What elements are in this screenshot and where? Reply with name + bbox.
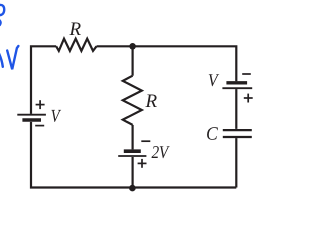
battery V1 minus sign (35, 125, 44, 127)
wire (31, 122, 236, 188)
node junction bottom (129, 185, 136, 192)
node junction top (129, 43, 136, 50)
capacitor C1 (223, 130, 252, 137)
battery V3 plus sign (138, 159, 147, 168)
resistor R2 (123, 76, 142, 125)
label V1 value V (51, 110, 61, 122)
wire (132, 125, 134, 149)
label R2 value R (145, 95, 156, 107)
label V2 value V (209, 74, 219, 86)
wire (132, 157, 134, 188)
battery V2 plus sign (244, 94, 253, 103)
battery V1 left (17, 115, 46, 120)
annotation blue handwriting partial digit (0, 5, 4, 25)
resistor R1 (56, 39, 96, 51)
annotation blue handwriting V (0, 46, 18, 69)
battery V3 minus sign (141, 140, 150, 142)
wire (31, 46, 56, 114)
label C1 value C (207, 127, 218, 140)
label V3 value 2V (152, 146, 170, 158)
battery V1 plus sign (36, 100, 45, 109)
battery V3 2V (118, 151, 146, 156)
wire (235, 138, 237, 187)
label R1 value R (69, 23, 80, 35)
wire (132, 46, 134, 75)
battery V2 right (222, 83, 252, 88)
battery V2 minus sign (242, 73, 251, 75)
wire (235, 89, 237, 129)
wire (97, 46, 237, 81)
